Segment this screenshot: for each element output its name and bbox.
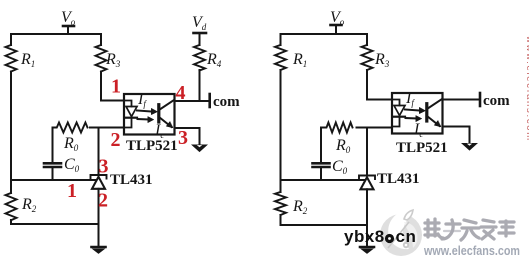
phototransistor Q2 collector (427, 99, 442, 109)
resistor R3 (96, 45, 107, 72)
svg-text:com: com (483, 93, 510, 109)
wire: C0 to ref rail (52, 168, 54, 180)
wire: left rail mid (10, 72, 12, 194)
phototransistor Q2 base bar (425, 104, 428, 121)
svg-text:www.elecfans.com: www.elecfans.com (524, 35, 529, 142)
svg-text:4: 4 (176, 82, 186, 104)
wire: C0 to ref rail (right) (320, 168, 322, 180)
wire: TL431 anode down (right) (366, 189, 368, 246)
wire: R3 branch top (right) (366, 34, 368, 45)
wire: left rail bottom (right) (280, 215, 282, 225)
resistor R1 (right) (275, 45, 286, 70)
phototransistor Q1 collector (159, 100, 174, 110)
ground (main, right circuit) (360, 246, 374, 249)
svg-text:com: com (213, 94, 240, 110)
wire: R4 down to pin4 rail (199, 70, 201, 101)
node com terminal (left) (208, 94, 211, 107)
svg-text:TLP521: TLP521 (396, 140, 448, 156)
svg-text:1: 1 (67, 180, 77, 202)
svg-text:TLP521: TLP521 (126, 138, 178, 154)
wire: R3 branch top (100, 34, 102, 45)
resistor R0 (right) (321, 123, 353, 133)
resistor R4 (194, 45, 205, 71)
capacitor C0 (44, 162, 61, 165)
resistor R0 (55, 123, 88, 133)
wire: top rail Vo (11, 33, 101, 35)
svg-text:Vo: Vo (330, 9, 345, 27)
LED lead cathode (pin2 inside) (124, 119, 132, 128)
wire: R3 to pin1 (101, 72, 124, 101)
wire: R0 net to pin2 (90, 127, 124, 129)
LED D2 cathode bar (394, 116, 405, 118)
wire: R0 net to pin2 (right) (357, 127, 393, 129)
svg-text:C0: C0 (64, 156, 80, 174)
LED D1 cathode bar (126, 117, 137, 119)
svg-text:C0: C0 (332, 158, 348, 176)
wire: R3 to pin1 (right) (367, 70, 392, 100)
wire: left branch down (10, 34, 12, 45)
wire: TL431 anode down (98, 189, 100, 246)
node Vo terminal (right) (335, 26, 337, 35)
wire: left branch down (right) (280, 34, 282, 45)
resistor R1 (6, 45, 17, 72)
svg-text:Vo: Vo (61, 9, 76, 27)
svg-text:Vd: Vd (192, 14, 207, 32)
svg-text:R1: R1 (292, 51, 307, 69)
wire: pin3 to ground (175, 128, 200, 145)
wire: bottom rail (11, 223, 99, 225)
shunt regulator TL431 (91, 175, 107, 179)
wire: top rail Vo (right) (281, 33, 368, 35)
watermark brand strokes (stylized 电子发烧友) (425, 219, 514, 240)
wire: pin4 to com (175, 100, 210, 102)
node Vo terminal (67, 27, 69, 35)
LED lead anode (pin1 inside, right) (392, 100, 400, 106)
node com terminal (right) (479, 93, 482, 106)
watermark logo circle (380, 210, 422, 256)
phototransistor Q2 emitter arrow (434, 121, 441, 127)
svg-text:R0: R0 (63, 135, 79, 153)
svg-text:TL431: TL431 (110, 172, 153, 188)
optical arrow 1 (137, 111, 152, 112)
svg-text:R2: R2 (292, 198, 308, 216)
svg-text:2: 2 (98, 190, 108, 212)
node Vd terminal (194, 32, 207, 35)
resistor R3 (right) (362, 45, 373, 70)
phototransistor Q1 base bar (157, 105, 160, 122)
LED lead cathode (pin2 inside, right) (392, 118, 400, 127)
svg-text:cn: cn (396, 227, 417, 246)
svg-text:R2: R2 (21, 196, 37, 214)
wire: ref rail (11, 179, 99, 181)
wire: bottom rail (right) (281, 224, 368, 226)
resistor R2 (6, 193, 17, 220)
optocoupler U2 TLP521 box (right) (392, 93, 443, 134)
svg-text:R0: R0 (335, 137, 351, 155)
svg-text:R1: R1 (20, 51, 35, 69)
svg-text:3: 3 (99, 156, 109, 178)
LED D1 triangle (126, 107, 137, 117)
wire: riser R0 to C0 (53, 128, 55, 163)
ground (pin3, left circuit) (192, 145, 206, 152)
wire: riser R0 to C0 (right) (320, 128, 322, 163)
svg-text:3: 3 (178, 127, 188, 149)
svg-text:1: 1 (111, 76, 121, 98)
LED lead anode (pin1 inside) (124, 101, 132, 107)
svg-text:ybx8: ybx8 (344, 227, 385, 246)
optical arrow 1 (right) (405, 110, 420, 111)
wire: left rail bottom (10, 220, 12, 224)
capacitor C0 (right) (313, 162, 330, 165)
svg-text:R3: R3 (105, 51, 121, 69)
wire: pin3 to ground (right) (443, 127, 470, 144)
resistor R2 (right) (275, 192, 286, 215)
svg-text:Ic: Ic (413, 121, 423, 139)
wire: left rail mid (right) (280, 70, 282, 192)
LED D2 triangle (394, 106, 405, 116)
svg-text:TL431: TL431 (377, 171, 420, 187)
svg-text:www.elecfans.com: www.elecfans.com (423, 244, 520, 258)
wire: ref rail (right) (281, 179, 368, 181)
wire: pin4 to com (right) (443, 99, 480, 101)
wire: junction to TL431 cathode (right) (366, 128, 368, 176)
shunt regulator TL431 (right) (359, 176, 375, 180)
optical arrow 2 (right) (406, 117, 417, 120)
ground (main, left circuit) (92, 246, 106, 249)
optical arrow 2 (138, 118, 149, 121)
svg-text:R3: R3 (374, 51, 390, 69)
wire: junction to TL431 cathode (98, 128, 100, 175)
phototransistor Q1 emitter arrow (166, 122, 173, 128)
phototransistor Q2 emitter (427, 116, 440, 126)
phototransistor Q1 emitter (159, 117, 172, 127)
ground (pin3, right circuit) (462, 144, 476, 151)
svg-text:R4: R4 (206, 51, 222, 69)
svg-text:2: 2 (111, 129, 121, 151)
optocoupler U1 TLP521 box (124, 94, 175, 135)
